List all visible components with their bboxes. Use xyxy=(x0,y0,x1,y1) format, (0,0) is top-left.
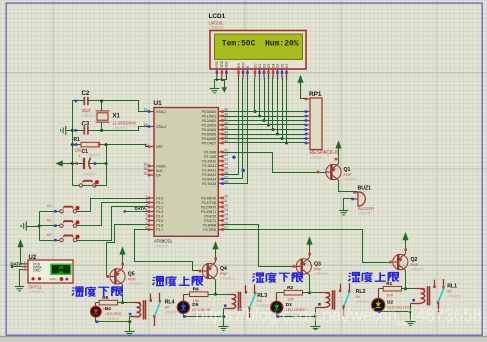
svg-text:<TEXT>: <TEXT> xyxy=(310,155,326,160)
svg-text:DATA: DATA xyxy=(135,206,146,211)
svg-text:RS: RS xyxy=(237,63,241,68)
LCD1 pin numbers xyxy=(215,76,289,80)
wire K1 to P1.0 xyxy=(77,199,149,212)
svg-text:VEE: VEE xyxy=(225,60,229,68)
svg-text:<TEXT>: <TEXT> xyxy=(105,317,120,321)
svg-text:K1: K1 xyxy=(47,204,51,208)
button RESET xyxy=(79,181,96,187)
relay coil xyxy=(227,294,236,296)
svg-text:P2.3/A11: P2.3/A11 xyxy=(202,164,216,168)
svg-text:<TEXT>: <TEXT> xyxy=(447,294,462,298)
svg-text:<TEXT>: <TEXT> xyxy=(209,25,225,30)
wire P3.7 to Q2 base xyxy=(223,230,391,263)
power +5V (Q3) xyxy=(306,236,312,244)
svg-text:35: 35 xyxy=(224,126,228,130)
svg-text:P2.2/A10: P2.2/A10 xyxy=(202,159,216,163)
relay coil xyxy=(132,302,141,304)
wire X1 top xyxy=(101,101,103,111)
svg-text:PNP: PNP xyxy=(314,267,322,271)
svg-text:RW: RW xyxy=(241,62,245,68)
wire RS to P2.5 xyxy=(223,78,239,175)
svg-text:38: 38 xyxy=(224,112,228,116)
capacitor C1 (electrolytic) xyxy=(84,158,91,169)
LCD1 pin names (VSS VDD VEE RS RW E D0-D7) xyxy=(215,60,289,68)
relay contacts (module 4) xyxy=(435,279,444,312)
svg-text:P1.2: P1.2 xyxy=(156,205,163,209)
U2 indicator dots xyxy=(60,277,64,281)
svg-text:GND: GND xyxy=(33,268,41,272)
wire X1 bottom xyxy=(101,123,103,131)
wire VDD xyxy=(222,78,225,88)
svg-text:11: 11 xyxy=(224,199,228,203)
wire C3 to XTAL2 xyxy=(88,127,149,131)
svg-text:Tem:50C Hum:20%: Tem:50C Hum:20% xyxy=(222,40,299,49)
buzzer BUZ1 body xyxy=(358,192,365,206)
wire Q2 emitter xyxy=(405,243,407,254)
wire relay coil return xyxy=(223,309,225,317)
relay coil bottom lead (module 3) xyxy=(316,307,326,309)
wire power to RP1 pin1 xyxy=(301,83,307,99)
svg-text:6V: 6V xyxy=(257,299,262,303)
label 湿度下限 (humidity lower limit) xyxy=(253,273,303,283)
wire P3.6 to Q3 base xyxy=(223,225,296,267)
svg-text:K3: K3 xyxy=(47,233,51,237)
wire R2 right lead xyxy=(303,292,310,294)
svg-text:6V: 6V xyxy=(165,306,170,310)
wire RST net vertical xyxy=(106,145,108,186)
relay coil bottom lead (module 2) xyxy=(224,308,232,310)
wire relay coil return xyxy=(315,308,317,317)
svg-text:P0.1/AD1: P0.1/AD1 xyxy=(202,114,217,118)
label 温度下限 (temp lower limit) xyxy=(72,287,122,297)
svg-text:P0.2/AD2: P0.2/AD2 xyxy=(202,119,217,123)
transistor Q2 xyxy=(393,253,408,270)
node diamonds xyxy=(232,155,236,159)
wire DATA stub xyxy=(125,211,149,213)
wire R5 right lead xyxy=(118,302,123,304)
svg-text:https://blog.csdn.net/weixin_1: https://blog.csdn.net/weixin_14873658 xyxy=(195,305,482,325)
RP1 pin leads xyxy=(306,99,310,143)
power symbol (LCD VDD, down arrow) xyxy=(222,87,228,93)
relay coil xyxy=(321,292,330,294)
wire module bottom rail xyxy=(184,314,224,317)
relay contacts (module 3) xyxy=(341,283,350,316)
svg-text:6V: 6V xyxy=(447,290,452,294)
svg-text:<TEXT>: <TEXT> xyxy=(82,113,98,118)
transistor Q4 xyxy=(202,262,217,279)
wire module bottom rail xyxy=(379,311,411,313)
svg-text:P0.4/AD4: P0.4/AD4 xyxy=(202,128,217,132)
svg-text:<TEXT>: <TEXT> xyxy=(314,272,329,276)
button K1 xyxy=(60,207,77,213)
transistor Q5 xyxy=(110,268,125,285)
wire buzzer to ground xyxy=(344,199,353,211)
svg-text:P1.3: P1.3 xyxy=(156,210,163,214)
svg-text:D2: D2 xyxy=(262,64,266,68)
power +5V (Q1) xyxy=(335,140,341,148)
svg-text:<TEXT>: <TEXT> xyxy=(411,268,426,272)
U1 left terminal squares xyxy=(148,110,151,113)
wire C1 right xyxy=(90,163,107,165)
LED D3 lead xyxy=(276,293,278,302)
svg-text:RP1: RP1 xyxy=(309,91,322,98)
U1 AT89C51 body xyxy=(154,108,218,237)
RP1 pin 1 terminal xyxy=(305,98,308,101)
RP1 pins 2-9 terminals xyxy=(305,110,308,113)
wire relay coil return xyxy=(129,317,131,322)
ground (module 2) xyxy=(219,317,229,331)
wire to relay coil xyxy=(123,302,132,304)
svg-text:PSEN: PSEN xyxy=(156,164,166,168)
svg-text:12: 12 xyxy=(224,203,228,207)
svg-text:15: 15 xyxy=(224,217,228,221)
svg-text:K2: K2 xyxy=(47,219,51,223)
svg-text:24: 24 xyxy=(224,162,228,166)
svg-text:13: 13 xyxy=(224,208,228,212)
svg-text:P0.5/AD5: P0.5/AD5 xyxy=(202,132,217,136)
ground (module 3) xyxy=(311,316,321,329)
wire K1 left xyxy=(40,211,60,213)
relay contacts (module 1) xyxy=(151,293,160,326)
svg-text:30: 30 xyxy=(144,167,148,171)
U1 pin numbers xyxy=(144,108,228,230)
svg-text:PNP: PNP xyxy=(128,277,136,281)
U1 right terminal squares xyxy=(221,110,224,113)
wire Q1 collector to buzzer xyxy=(339,181,358,192)
wire R1 right lead xyxy=(402,288,406,290)
capacitor C3 xyxy=(84,126,88,134)
ground (module 4) xyxy=(406,312,416,326)
wire K3 left xyxy=(40,240,60,242)
svg-text:XTAL2: XTAL2 xyxy=(156,125,166,129)
wire button rail xyxy=(39,212,41,241)
wire R1 to RST xyxy=(100,145,149,147)
svg-text:P2.5/A13: P2.5/A13 xyxy=(202,173,216,177)
svg-text:U1: U1 xyxy=(154,100,163,107)
ground (LCD VSS) xyxy=(210,89,219,93)
svg-text:14: 14 xyxy=(224,212,228,216)
svg-text:33: 33 xyxy=(224,135,228,139)
svg-text:P1.0: P1.0 xyxy=(156,196,163,200)
LCD1 green screen xyxy=(215,34,303,59)
svg-text:LED-RED: LED-RED xyxy=(105,312,122,316)
LED D5 lead xyxy=(183,294,185,301)
svg-text:P3.0/RXD: P3.0/RXD xyxy=(201,196,217,200)
svg-text:P3.2/INT0: P3.2/INT0 xyxy=(201,205,216,209)
svg-text:P1.5: P1.5 xyxy=(156,219,163,223)
svg-text:C2: C2 xyxy=(82,91,90,97)
power +5V (RP1 common) xyxy=(297,75,303,83)
wire R5 left lead xyxy=(96,302,100,304)
svg-text:P2.7/A15: P2.7/A15 xyxy=(202,182,216,186)
relay coil bottom lead (module 1) xyxy=(130,316,137,318)
wire module bottom rail xyxy=(277,314,316,317)
wire reset button right xyxy=(95,185,107,187)
svg-text:100: 100 xyxy=(386,292,393,297)
svg-text:RST: RST xyxy=(156,145,163,149)
svg-text:P2.1/A9: P2.1/A9 xyxy=(204,155,216,159)
button labels xyxy=(47,204,51,237)
svg-text:VSS: VSS xyxy=(215,60,219,68)
svg-text:D0: D0 xyxy=(253,64,257,68)
power +5V (Q5) xyxy=(119,246,125,254)
button K3 xyxy=(60,236,77,242)
wire C3 left xyxy=(73,130,85,132)
svg-text:PNP: PNP xyxy=(344,173,352,177)
resistor R2 xyxy=(284,290,302,295)
svg-text:XTAL1: XTAL1 xyxy=(156,110,166,114)
transistor Q3 xyxy=(296,258,311,275)
wire R4 left lead xyxy=(184,294,190,296)
ground (U2) xyxy=(15,287,24,291)
svg-text:P1.6: P1.6 xyxy=(156,223,163,227)
svg-text:VDD: VDD xyxy=(220,60,224,68)
wire Q5 emitter xyxy=(122,258,124,268)
svg-text:P3.1/TXD: P3.1/TXD xyxy=(201,201,216,205)
resistor R1 xyxy=(383,286,401,291)
LCD1 LM016L display body xyxy=(210,31,306,70)
svg-text:<TEXT>: <TEXT> xyxy=(83,173,98,177)
svg-text:D5: D5 xyxy=(276,64,280,68)
wire K2 left xyxy=(40,225,60,227)
svg-text:EA: EA xyxy=(156,173,161,177)
wire R2 left lead xyxy=(277,292,285,294)
ground (C2/C3) xyxy=(61,126,66,135)
resistor R1 (reset) xyxy=(81,142,99,147)
crystal X1 body xyxy=(97,113,108,120)
svg-text:P1.7: P1.7 xyxy=(156,228,163,232)
wire module bottom rail xyxy=(96,317,130,322)
svg-text:P1.1: P1.1 xyxy=(156,201,163,205)
resistor R5 xyxy=(99,300,117,305)
wire to relay coil xyxy=(216,294,227,296)
RP1 RESPACK-8 body xyxy=(310,98,322,150)
wire K3 to P1.2 xyxy=(77,207,149,241)
wire Q3 collector xyxy=(309,275,311,293)
svg-text:<TEXT>: <TEXT> xyxy=(344,178,359,182)
svg-text:1: 1 xyxy=(146,194,148,198)
U2 pin leads xyxy=(23,264,29,270)
U2 DHT11 body xyxy=(28,260,73,283)
wire U2 GND xyxy=(20,270,23,287)
wires D0-D7 to P0 bus xyxy=(254,78,256,112)
svg-text:39: 39 xyxy=(224,108,228,112)
svg-text:5: 5 xyxy=(146,212,148,216)
wire Q1 emitter xyxy=(338,152,340,164)
wire VEE to VSS rail xyxy=(217,78,227,80)
wire R4 right lead xyxy=(209,294,216,296)
svg-text:D6: D6 xyxy=(280,64,284,68)
wire to ground xyxy=(67,130,73,132)
LED D4 (LED-RED) xyxy=(91,306,102,317)
svg-text:34: 34 xyxy=(224,130,228,134)
wire P1.6 to Q5 base xyxy=(107,225,149,277)
wire E to P2.7 xyxy=(223,78,248,184)
svg-text:22: 22 xyxy=(224,153,228,157)
wire C2 left xyxy=(73,100,85,102)
svg-text:R1: R1 xyxy=(74,137,81,143)
wire P2.0 to Q1 base xyxy=(223,153,327,173)
wire Q3 emitter xyxy=(309,248,311,258)
svg-text:28: 28 xyxy=(59,267,64,271)
svg-text:31: 31 xyxy=(144,171,148,175)
svg-text:28: 28 xyxy=(224,180,228,184)
relay contacts (module 2) xyxy=(246,284,255,317)
svg-text:P3.7/RD: P3.7/RD xyxy=(203,228,216,232)
wire Q2 collector xyxy=(405,271,407,289)
wire C2 to XTAL1 xyxy=(88,101,149,112)
svg-text:P0.0/AD0: P0.0/AD0 xyxy=(202,110,217,114)
svg-text:25: 25 xyxy=(224,166,228,170)
svg-text:%RH: %RH xyxy=(49,277,57,281)
wire relay coil return xyxy=(410,304,412,312)
label 温度上限 (temp upper limit) xyxy=(153,276,203,286)
svg-text:P0.6/AD6: P0.6/AD6 xyxy=(202,137,217,141)
wire to relay coil xyxy=(310,292,321,294)
svg-text:<TEXT>: <TEXT> xyxy=(165,310,180,314)
wire R1 left xyxy=(73,144,81,146)
U1 right pin leads xyxy=(218,112,222,230)
LED D2 lead xyxy=(378,289,380,299)
wire R1 left lead xyxy=(379,288,384,290)
svg-text:26: 26 xyxy=(224,171,228,175)
svg-text:P2.6/A14: P2.6/A14 xyxy=(202,177,216,181)
svg-text:D7: D7 xyxy=(285,64,289,68)
svg-text:P3.5/T1: P3.5/T1 xyxy=(204,219,216,223)
svg-text:23: 23 xyxy=(224,157,228,161)
svg-text:PNP: PNP xyxy=(411,263,419,267)
wire to relay coil xyxy=(406,288,416,290)
power +5V (U2) xyxy=(17,239,23,247)
LED D2 (LED-YELLOW) xyxy=(372,298,385,311)
LCD1 pin leads xyxy=(217,69,287,77)
svg-text:32: 32 xyxy=(224,139,228,143)
label 湿度上限 (humidity upper limit) xyxy=(349,272,399,282)
power (C1 VCC, left arrow) xyxy=(56,160,63,166)
svg-text:PNP: PNP xyxy=(220,272,228,276)
svg-text:P2.4/A12: P2.4/A12 xyxy=(202,168,216,172)
wire ground to button rail xyxy=(27,226,40,228)
relay coil xyxy=(416,288,425,290)
capacitor C2 xyxy=(84,97,88,105)
svg-text:<TEXT>: <TEXT> xyxy=(220,277,235,281)
wire U2 DATA stub xyxy=(13,266,23,268)
svg-text:6V: 6V xyxy=(356,295,361,299)
svg-text:ALE: ALE xyxy=(156,169,163,173)
wire reset button left xyxy=(73,185,80,187)
svg-text:+: + xyxy=(78,154,81,159)
svg-text:D4: D4 xyxy=(271,64,275,68)
svg-text:56: 56 xyxy=(59,271,64,275)
svg-text:P1.4: P1.4 xyxy=(156,214,163,218)
svg-text:<TEXT>: <TEXT> xyxy=(113,126,129,131)
svg-text:36: 36 xyxy=(224,121,228,125)
svg-text:X1: X1 xyxy=(113,114,121,120)
power +5V (Q4) xyxy=(212,241,218,249)
power +5V (Q2) xyxy=(402,232,408,240)
svg-text:BUZ1: BUZ1 xyxy=(358,186,372,192)
svg-text:<TEXT>: <TEXT> xyxy=(154,244,170,249)
LED D5 (LED-BLUE) xyxy=(177,301,189,313)
U1 pin name texts xyxy=(156,110,217,232)
relay coil bottom lead (module 4) xyxy=(411,303,421,305)
svg-text:100: 100 xyxy=(287,296,294,301)
bottom outside-sheet band xyxy=(0,336,487,337)
LCD1 pin terminal squares xyxy=(216,71,219,74)
svg-text:37: 37 xyxy=(224,117,228,121)
resistor R4 xyxy=(190,292,208,297)
LED D4 lead xyxy=(95,303,97,307)
svg-text:<TEXT>: <TEXT> xyxy=(356,300,371,304)
svg-text:29: 29 xyxy=(144,162,148,166)
svg-text:P2.0/A8: P2.0/A8 xyxy=(204,150,216,154)
svg-text:P3.4/T0: P3.4/T0 xyxy=(204,214,216,218)
U1 left pin leads xyxy=(149,112,154,230)
svg-text:P0.3/AD3: P0.3/AD3 xyxy=(202,123,217,127)
svg-text:P0.7/AD7: P0.7/AD7 xyxy=(202,141,217,145)
svg-text:D1: D1 xyxy=(258,64,262,68)
svg-text:D3: D3 xyxy=(267,64,271,68)
button K2 xyxy=(60,221,77,227)
wire Q5 collector xyxy=(122,285,124,303)
wire Q4 collector xyxy=(215,280,217,295)
wire Q4 emitter xyxy=(215,253,217,263)
wire left rail xyxy=(72,101,74,186)
U2 display xyxy=(51,264,71,274)
wire RW to P2.6 xyxy=(223,78,243,179)
svg-text:P3.3/INT1: P3.3/INT1 xyxy=(201,210,216,214)
ground (buttons) xyxy=(21,221,26,230)
svg-text:27: 27 xyxy=(224,175,228,179)
svg-text:<TEXT>: <TEXT> xyxy=(29,289,45,294)
svg-text:BUZZER: BUZZER xyxy=(358,206,374,211)
ground (module 1) xyxy=(125,322,135,336)
svg-text:<TEXT>: <TEXT> xyxy=(128,282,143,286)
svg-text:<TEXT>: <TEXT> xyxy=(86,154,101,158)
U2 pin names xyxy=(33,262,42,272)
svg-text:P3.6/WR: P3.6/WR xyxy=(203,223,217,227)
LED D3 (LED-GREEN) xyxy=(271,301,283,313)
wire C1 left xyxy=(63,163,85,165)
wire VSS to ground xyxy=(215,78,217,89)
wire U2 VDD to power xyxy=(21,248,23,264)
ground (BUZ1) xyxy=(339,211,348,215)
wire K2 to P1.1 xyxy=(77,203,149,226)
P0 bus horizontal wires to RP1 xyxy=(223,111,307,113)
svg-text:LCD1: LCD1 xyxy=(209,13,226,20)
transistor Q1 xyxy=(326,163,341,180)
svg-text:10: 10 xyxy=(224,194,228,198)
wire P1.7 to Q4 base xyxy=(135,230,200,271)
svg-text:6: 6 xyxy=(146,217,148,221)
svg-text:21: 21 xyxy=(224,148,228,152)
svg-text:<TEXT>: <TEXT> xyxy=(358,211,373,215)
